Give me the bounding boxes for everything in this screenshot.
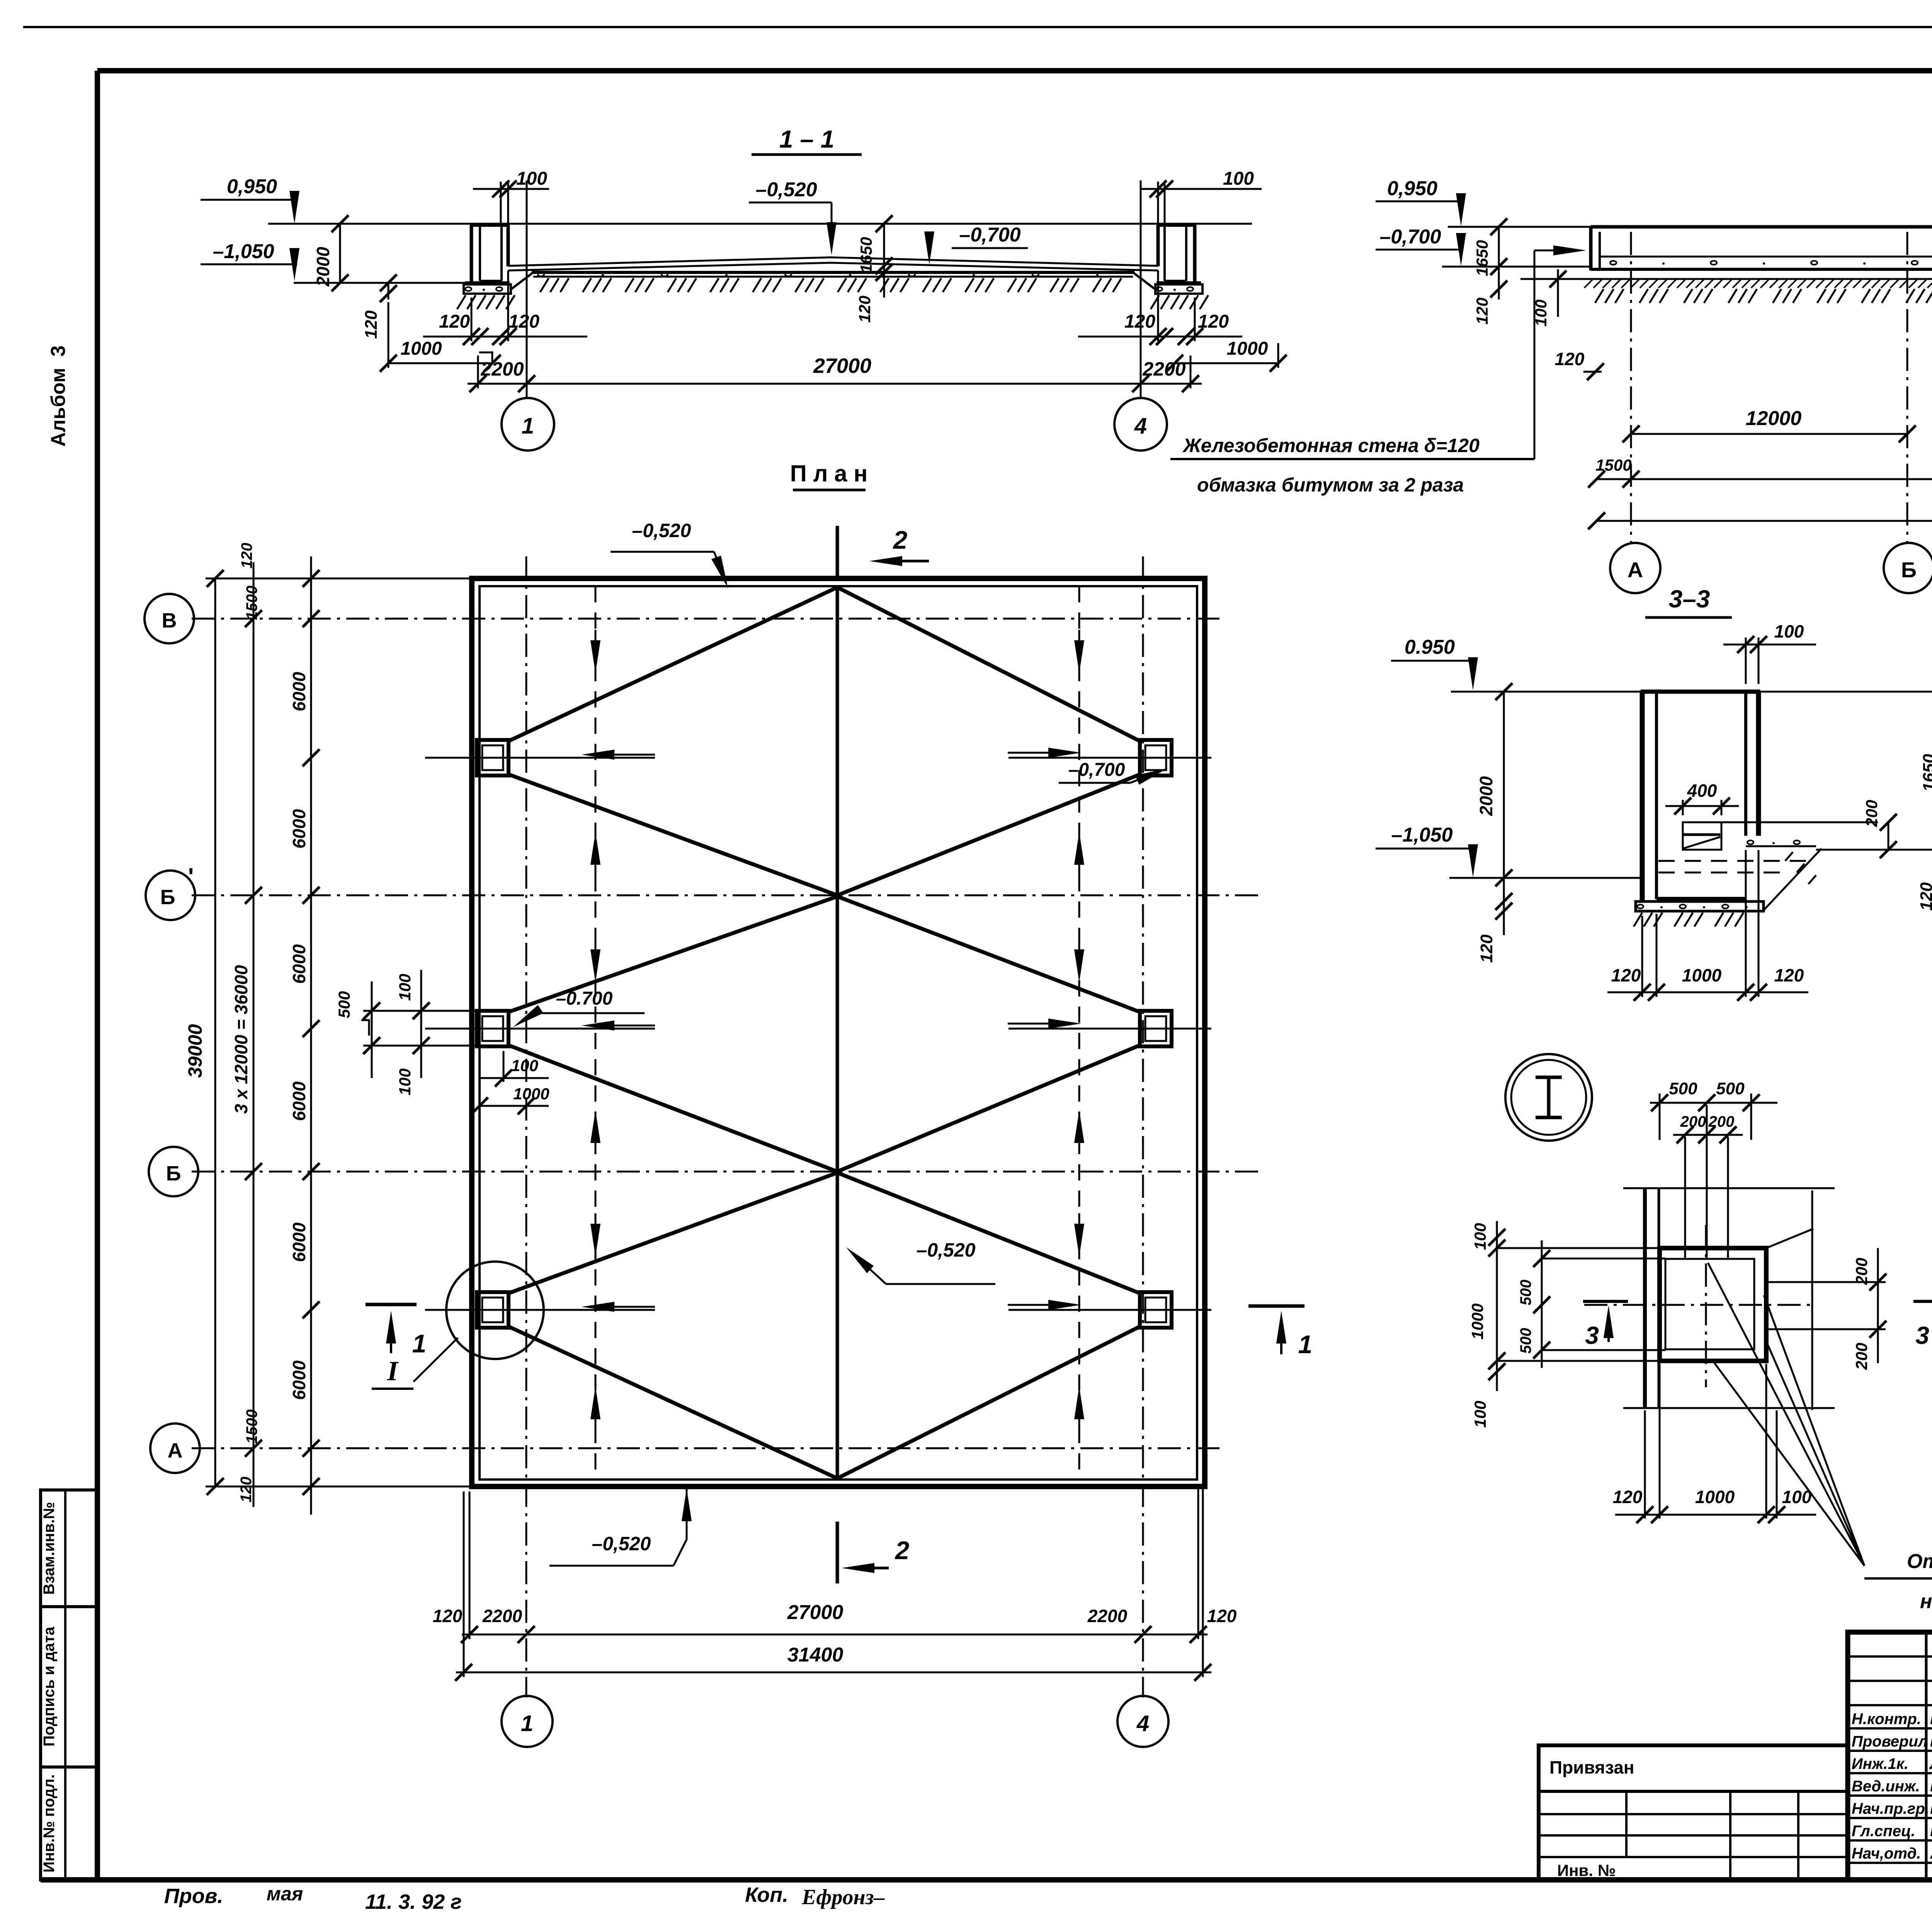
svg-text:200: 200 — [1852, 1343, 1871, 1370]
svg-text:Альтшуллер: Альтшуллер — [1930, 1845, 1932, 1862]
svg-text:4: 4 — [1136, 1711, 1149, 1736]
section 2-2 bitumen hatch band — [1584, 279, 1932, 288]
svg-text:100: 100 — [1471, 1223, 1489, 1250]
level line -0.700 (2-2) — [1442, 266, 1591, 268]
svg-text:120: 120 — [362, 310, 381, 339]
section 1-1 right wall — [1193, 225, 1197, 283]
svg-text:1000: 1000 — [1695, 1487, 1735, 1507]
margin box Взам.инв.№ — [41, 1490, 97, 1607]
svg-text:1500: 1500 — [243, 586, 260, 620]
svg-text:100: 100 — [1223, 168, 1254, 189]
svg-text:Альбом 3: Альбом 3 — [47, 345, 70, 447]
dimension 1000 below right wall (1-1) — [1175, 362, 1278, 364]
section 3-3 walls — [1640, 690, 1645, 901]
section 3-3 step at right — [1746, 845, 1816, 847]
plan tank wall outline — [472, 578, 1205, 1486]
svg-text:–0,520: –0,520 — [592, 1533, 651, 1554]
dimension 200 (3-3) — [1888, 822, 1889, 850]
svg-text:Ефронз–: Ефронз– — [801, 1885, 884, 1909]
svg-text:100: 100 — [1471, 1401, 1489, 1428]
plan slope arrows — [590, 630, 1084, 1430]
section 3-3 bottom dims — [1641, 916, 1643, 997]
svg-text:–0,700: –0,700 — [1379, 226, 1441, 248]
svg-text:1: 1 — [522, 413, 534, 439]
svg-text:120: 120 — [439, 311, 470, 332]
section 1-1 left wall — [470, 225, 473, 283]
svg-text:Миренская: Миренская — [1930, 1778, 1932, 1795]
plan axis circle Б — [149, 1147, 198, 1196]
svg-text:2: 2 — [895, 1536, 910, 1565]
section mark 1 right (plan) — [1248, 1304, 1304, 1308]
svg-text:1650: 1650 — [1473, 240, 1491, 276]
section 1-1 level line 0.950 — [268, 223, 1252, 225]
plan axis circle Б' — [146, 871, 195, 920]
svg-text:1: 1 — [412, 1329, 427, 1358]
dimension 100 1000 below left column (plan) — [480, 1077, 549, 1079]
svg-text:Вед.инж.: Вед.инж. — [1852, 1778, 1920, 1795]
svg-text:Нач,отд.: Нач,отд. — [1852, 1845, 1921, 1862]
plan axis circle 1 — [502, 1696, 553, 1747]
dimensions 120 120 below left wall (1-1) — [423, 336, 587, 338]
svg-text:12000: 12000 — [1746, 407, 1802, 430]
svg-text:3 x 12000 = 36000: 3 x 12000 = 36000 — [231, 965, 251, 1114]
svg-text:Инж.1к.: Инж.1к. — [1852, 1755, 1908, 1772]
section mark 2 bottom (plan) — [836, 1522, 839, 1583]
svg-text:120: 120 — [1198, 311, 1229, 332]
plan axis circle В — [145, 594, 194, 643]
plan column row 1 center line — [425, 757, 655, 759]
plan axis line 1 — [526, 556, 527, 1697]
section 1-1 left wall footing — [465, 281, 510, 284]
svg-text:11. 3. 92 г: 11. 3. 92 г — [365, 1890, 462, 1913]
section 1-1 left footing ground hatch — [457, 295, 466, 309]
svg-text:–0.700: –0.700 — [556, 988, 613, 1009]
dimensions 120 120 below right wall (1-1) — [1078, 336, 1242, 338]
svg-text:6000: 6000 — [289, 1081, 309, 1121]
svg-text:1 – 1: 1 – 1 — [779, 125, 834, 153]
svg-text:1000: 1000 — [1227, 338, 1268, 359]
svg-text:120: 120 — [433, 1606, 463, 1626]
svg-text:200: 200 — [1862, 800, 1881, 827]
svg-text:120: 120 — [238, 543, 255, 569]
plan wall top extension line — [206, 578, 472, 580]
svg-text:6000: 6000 — [289, 1360, 309, 1400]
leader to wall (2-2) — [1534, 250, 1536, 459]
svg-text:Б: Б — [160, 886, 175, 909]
dimension 100 (2-2 left) — [1557, 269, 1559, 317]
svg-text:400: 400 — [1687, 781, 1717, 801]
svg-text:1000: 1000 — [1682, 965, 1722, 985]
svg-text:0.950: 0.950 — [1405, 636, 1455, 658]
dimension 1650 (1-1) — [883, 224, 885, 266]
svg-text:Инв. №: Инв. № — [1557, 1861, 1616, 1879]
detail I section mark 3 right — [1913, 1300, 1932, 1303]
plan right column 2 — [1140, 1011, 1172, 1046]
outer trim line top — [23, 26, 1932, 28]
dimension 120 center (1-1) — [883, 266, 885, 298]
plan column row 3 center line — [425, 1309, 655, 1311]
plan column row 2 center line — [425, 1028, 655, 1030]
svg-text:Проверил: Проверил — [1852, 1733, 1928, 1750]
section 3-3 hidden dashed lines — [1658, 860, 1812, 862]
axis line А (2-2) — [1630, 232, 1632, 543]
plan left column 2 — [477, 1011, 509, 1046]
svg-text:120: 120 — [1917, 882, 1932, 911]
plan wall bottom extension line — [206, 1486, 472, 1488]
dimension 3x12000=36000 (2-2) — [1597, 478, 1932, 480]
svg-text:2200: 2200 — [1087, 1606, 1128, 1626]
svg-text:1000: 1000 — [401, 338, 442, 359]
dimension 1650 (2-2) — [1498, 227, 1500, 270]
svg-text:1: 1 — [1298, 1330, 1313, 1359]
plan axis line А — [192, 1447, 1221, 1449]
plan horizontal slope arrows — [582, 748, 1081, 1312]
svg-text:2200: 2200 — [1142, 358, 1185, 380]
dimension 100 left top (1-1) — [500, 182, 502, 225]
svg-text:Бабышева: Бабышева — [1930, 1733, 1932, 1750]
svg-text:0,950: 0,950 — [227, 175, 277, 198]
svg-text:120: 120 — [1477, 934, 1496, 963]
dimension 120 (2-2 left) — [1498, 270, 1500, 299]
section 2-2 level line — [1448, 226, 1591, 228]
plan right column 1 — [1140, 740, 1172, 776]
plan axis line Б — [192, 1171, 1263, 1173]
svg-text:1000: 1000 — [513, 1085, 549, 1103]
axis circle Б (2-2) — [1884, 543, 1932, 593]
svg-text:27000: 27000 — [813, 354, 871, 378]
svg-text:обмазка битумом за 2 раза: обмазка битумом за 2 раза — [1197, 474, 1464, 496]
section 2-2 gravel layer — [1610, 261, 1616, 265]
margin box Подпись и дата — [41, 1607, 97, 1767]
svg-text:200: 200 — [1680, 1113, 1706, 1130]
section 2-2 tank top edge — [1591, 225, 1932, 229]
detail I opening leaders — [1708, 1263, 1864, 1566]
svg-text:120: 120 — [1774, 965, 1804, 985]
svg-text:–0,520: –0,520 — [917, 1239, 976, 1261]
svg-text:1650: 1650 — [1920, 754, 1932, 792]
svg-text:200: 200 — [1708, 1113, 1735, 1130]
svg-text:I: I — [387, 1355, 399, 1386]
svg-text:Железобетонная стена δ=120: Железобетонная стена δ=120 — [1182, 435, 1480, 456]
svg-text:Б: Б — [1901, 558, 1917, 582]
svg-text:2: 2 — [893, 526, 908, 554]
svg-text:100: 100 — [1774, 621, 1804, 641]
svg-text:–1,050: –1,050 — [1391, 824, 1452, 846]
section 2-2 left wall — [1589, 227, 1593, 270]
svg-text:низ на отм. – 0,700: низ на отм. – 0,700 — [1920, 1590, 1932, 1613]
plan slope channel dashed line left — [595, 586, 597, 1480]
detail I right dim 200 200 — [1766, 1281, 1886, 1283]
svg-text:–0,520: –0,520 — [755, 179, 817, 201]
detail I top dim chain 200 200 — [1673, 1134, 1743, 1136]
svg-text:Гл.спец.: Гл.спец. — [1852, 1823, 1915, 1840]
detail I wall lines — [1643, 1188, 1647, 1408]
svg-text:–1,050: –1,050 — [213, 240, 274, 263]
dimension 100 (3-3 top) — [1745, 638, 1747, 684]
svg-text:6000: 6000 — [289, 1222, 309, 1262]
dimension 120 (3-3 left) — [1503, 878, 1505, 935]
svg-text:Пров.: Пров. — [164, 1884, 223, 1908]
svg-text:1000: 1000 — [1468, 1303, 1486, 1339]
svg-text:Подпись и дата: Подпись и дата — [41, 1626, 58, 1747]
detail I top dim chain 500 500 — [1650, 1102, 1777, 1104]
plan ridge line — [836, 586, 839, 1480]
svg-text:Взам.инв.№: Взам.инв.№ — [41, 1502, 58, 1595]
svg-text:Козловичер: Козловичер — [1930, 1823, 1932, 1840]
plan slope channel dashed line right — [1078, 586, 1080, 1480]
detail I left outer dim chain 100 1000 100 — [1496, 1221, 1498, 1391]
svg-text:120: 120 — [1473, 298, 1491, 325]
section 1-1 right footing ground hatch — [1151, 295, 1159, 309]
svg-text:500: 500 — [1517, 1328, 1534, 1354]
section 3-3 footing — [1636, 901, 1764, 911]
plan left dim chain 6000 — [310, 556, 312, 1515]
section mark 1 left (plan) — [366, 1303, 417, 1306]
detail I construction lines — [1623, 1187, 1835, 1189]
svg-text:120: 120 — [1611, 965, 1641, 985]
svg-text:1650: 1650 — [857, 237, 875, 273]
plan drainage diagonals band 2 — [509, 896, 1140, 1012]
svg-text:6000: 6000 — [289, 809, 309, 849]
detail I circle symbol — [1505, 1054, 1592, 1141]
svg-text:3: 3 — [1585, 1321, 1599, 1349]
svg-text:': ' — [188, 864, 194, 890]
svg-text:В: В — [162, 609, 177, 632]
plan left column 1 — [477, 740, 509, 776]
svg-text:120: 120 — [238, 1477, 255, 1503]
plan bottom extension lines — [463, 1492, 465, 1677]
svg-text:П л а н: П л а н — [790, 461, 868, 486]
svg-text:–0,700: –0,700 — [959, 224, 1020, 246]
svg-text:Бердичевская: Бердичевская — [1930, 1800, 1932, 1817]
svg-text:Козловичер: Козловичер — [1930, 1711, 1932, 1728]
dimension 120 left (1-1) — [388, 283, 389, 299]
svg-text:2200: 2200 — [480, 358, 524, 380]
svg-text:мая: мая — [267, 1883, 303, 1905]
axis line 1 (1-1) — [526, 180, 528, 399]
detail I inner square — [1665, 1259, 1754, 1349]
axis circle А (2-2) — [1610, 543, 1660, 593]
plan left column 3 — [477, 1292, 509, 1328]
svg-text:2200: 2200 — [482, 1606, 522, 1626]
svg-text:120: 120 — [1207, 1606, 1237, 1626]
svg-text:Коп.: Коп. — [745, 1883, 788, 1906]
svg-text:А: А — [168, 1439, 183, 1462]
svg-text:39000: 39000 — [184, 1024, 206, 1078]
section 3-3 bottom slab — [1656, 897, 1746, 901]
svg-text:1500: 1500 — [243, 1410, 260, 1444]
svg-text:500: 500 — [1716, 1079, 1745, 1098]
svg-text:27000: 27000 — [787, 1601, 844, 1624]
detail I bottom dim chain 120 1000 100 — [1644, 1410, 1646, 1519]
svg-text:Отверстия 400х200 (h): Отверстия 400х200 (h) — [1907, 1550, 1932, 1573]
svg-text:200: 200 — [1852, 1258, 1871, 1285]
title block main outline — [1848, 1632, 1932, 1880]
svg-text:А: А — [1628, 558, 1643, 582]
svg-text:120: 120 — [855, 296, 874, 323]
section 3-3 ground hatch — [1634, 913, 1642, 927]
detail I column opening square — [1660, 1248, 1766, 1361]
svg-text:500: 500 — [1669, 1079, 1697, 1098]
svg-text:31400: 31400 — [787, 1644, 844, 1666]
svg-text:1500: 1500 — [1595, 456, 1631, 474]
svg-text:Инв.№ подл.: Инв.№ подл. — [41, 1774, 58, 1872]
detail I left inner dim chain 500 500 — [1541, 1240, 1543, 1368]
svg-text:2000: 2000 — [313, 247, 333, 287]
section 2-2 floor — [1591, 268, 1932, 271]
plan right column 3 — [1140, 1292, 1172, 1328]
svg-text:1: 1 — [521, 1711, 533, 1736]
plan axis line 4 — [1142, 556, 1144, 1697]
plan bottom dim chain 120 2200 27000 2200 120 — [462, 1634, 1207, 1636]
plan drainage diagonals band 3 — [509, 1173, 1140, 1293]
title block signature columns — [1925, 1632, 1928, 1880]
section 1-1 right wall footing — [1156, 281, 1201, 284]
svg-text:120: 120 — [1555, 349, 1585, 369]
svg-text:Б: Б — [166, 1162, 181, 1185]
svg-text:2000: 2000 — [1476, 776, 1496, 816]
plan left dim chain 36000 — [253, 562, 255, 1507]
detail I section mark 3 left — [1583, 1300, 1628, 1303]
svg-text:100: 100 — [511, 1056, 538, 1075]
plan axis line Б' — [192, 895, 1263, 896]
plan bottom dim chain 31400 — [456, 1672, 1211, 1673]
svg-text:100: 100 — [516, 168, 547, 189]
dimension 400 (3-3) — [1682, 800, 1684, 815]
plan axis circle 4 — [1117, 1696, 1168, 1747]
section 2-2 ground hatch — [1595, 289, 1604, 303]
title block Привязан box — [1539, 1745, 1848, 1880]
svg-text:100: 100 — [396, 1068, 414, 1095]
svg-text:6000: 6000 — [289, 672, 309, 711]
svg-text:–0,520: –0,520 — [632, 520, 691, 541]
svg-text:500: 500 — [335, 991, 353, 1018]
dimension chain 2200 27000 2200 (1-1) — [468, 383, 1202, 385]
plan axis line В — [192, 618, 1221, 620]
detail I center lines — [1705, 1225, 1707, 1387]
svg-text:100: 100 — [396, 974, 414, 1001]
svg-text:500: 500 — [1517, 1280, 1534, 1306]
svg-text:3: 3 — [1915, 1321, 1929, 1349]
axis line 4 (1-1) — [1140, 180, 1142, 399]
svg-text:4: 4 — [1134, 413, 1147, 439]
section 3-3 opening 400 — [1683, 822, 1721, 850]
section mark 2 top (plan) — [836, 526, 839, 577]
svg-text:Нач.пр.гр.: Нач.пр.гр. — [1852, 1800, 1929, 1817]
plan left dim chain 39000 — [214, 578, 216, 1488]
svg-text:120: 120 — [1613, 1487, 1643, 1507]
section 1-1 ground hatch — [540, 278, 549, 292]
detail I leader and label — [413, 1338, 458, 1382]
section 1-1 floor slab base — [532, 271, 1134, 274]
margin box Инв.№ подл. — [41, 1767, 97, 1880]
svg-text:Н.контр.: Н.контр. — [1852, 1711, 1921, 1728]
dimension 12000 (2-2) — [1631, 433, 1907, 435]
svg-text:Привязан: Привязан — [1549, 1757, 1634, 1777]
axis circle 4 (1-1) — [1114, 398, 1167, 451]
dimension 500 100 at left column (plan) — [363, 1010, 477, 1012]
section 1-1 floor crown — [508, 257, 1158, 266]
plan drainage diagonals band 1 — [509, 587, 1140, 741]
dimension 39000 (2-2) — [1597, 520, 1932, 522]
svg-text:120: 120 — [509, 311, 539, 332]
svg-text:0,950: 0,950 — [1387, 177, 1437, 200]
dimension 2000 (3-3) — [1503, 692, 1505, 878]
svg-text:6000: 6000 — [289, 944, 309, 984]
plan axis circle А — [150, 1423, 200, 1473]
axis circle 1 (1-1) — [502, 398, 554, 451]
dimension 2000 (1-1) — [339, 224, 341, 283]
dimension 100 right top (1-1) — [1157, 182, 1159, 225]
svg-text:–0,700: –0,700 — [1068, 760, 1125, 780]
section 3-3 level line 0.950 — [1451, 691, 1932, 693]
dimension 1000 below left wall (1-1) — [388, 362, 492, 364]
svg-text:3–3: 3–3 — [1669, 585, 1710, 613]
axis line Б (2-2) — [1906, 232, 1908, 543]
detail circle I (plan) — [446, 1262, 544, 1359]
title block signature rows — [1848, 1655, 1932, 1658]
